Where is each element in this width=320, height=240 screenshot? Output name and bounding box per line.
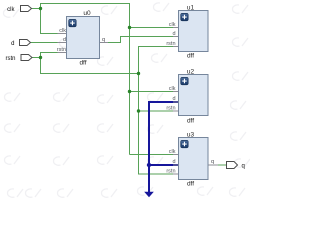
junction node rstn-u2 (137, 109, 140, 112)
junction node clk-u2 (128, 90, 131, 93)
svg-text:u3: u3 (187, 132, 195, 139)
svg-text:q: q (102, 37, 105, 43)
wire rstn port stub (32, 57, 41, 59)
svg-text:clk: clk (169, 22, 176, 28)
svg-text:rstn: rstn (166, 106, 175, 112)
watermark pattern (3, 3, 250, 197)
wire blue to u2.d (149, 102, 179, 193)
wire rstn down-run (41, 57, 139, 74)
wire clk riser to top (40, 4, 42, 10)
svg-text:dff: dff (187, 118, 194, 125)
u2 expand icon (181, 77, 189, 85)
svg-text:d: d (11, 41, 14, 47)
wire rstn branch up to u0 (41, 53, 67, 59)
u0 expand icon (69, 19, 77, 27)
wire clk elbow to u3 (130, 154, 179, 156)
junction node rstn-mid (137, 72, 140, 75)
svg-text:dff: dff (187, 53, 194, 60)
wire clk port stub (32, 8, 41, 10)
svg-text:clk: clk (169, 149, 176, 155)
svg-text:dff: dff (79, 60, 86, 67)
wire d port to u0 (31, 42, 67, 44)
svg-text:d: d (63, 37, 66, 43)
wire q0 net u0.q to u1.d (100, 37, 179, 43)
svg-text:rstn: rstn (166, 169, 175, 175)
u2 pin stubs (173, 92, 179, 112)
svg-text:d: d (172, 159, 175, 165)
svg-text:u1: u1 (187, 5, 195, 12)
u2 body (179, 75, 209, 116)
wire blue branch to u3.d (149, 164, 179, 166)
blue net end arrow (144, 192, 154, 197)
junction node rstn-port (39, 56, 42, 59)
svg-text:clk: clk (7, 7, 15, 13)
wire clk branch to u1 (130, 27, 179, 29)
wire clk top run (40, 3, 130, 5)
wire rstn riser to u1 (139, 47, 179, 75)
svg-text:rstn: rstn (5, 56, 15, 62)
highlighted net d2 (blue) (149, 102, 179, 193)
svg-text:rstn: rstn (166, 41, 175, 47)
wire rstn trunk down (139, 73, 179, 174)
u1 body (179, 11, 209, 52)
u3 expand icon (181, 140, 189, 148)
wire clk branch to u2 (130, 91, 179, 93)
u3 body (179, 138, 209, 180)
u1 expand icon (181, 13, 189, 20)
svg-text:u2: u2 (187, 69, 195, 76)
svg-text:q: q (211, 159, 214, 165)
svg-text:clk: clk (169, 86, 176, 92)
svg-text:dff: dff (187, 181, 194, 188)
wire clk vertical trunk (129, 3, 131, 155)
wire rstn branch to u2 (139, 110, 179, 112)
u0 body (67, 17, 100, 59)
svg-text:q: q (242, 164, 245, 170)
wire q3 net u3.q to port (208, 164, 227, 166)
junction node blue u3.d (147, 163, 151, 167)
svg-text:d: d (172, 31, 175, 37)
svg-text:clk: clk (59, 28, 66, 34)
svg-text:d: d (172, 96, 175, 102)
junction node clk-port (39, 7, 42, 10)
svg-text:u0: u0 (83, 10, 91, 17)
junction node clk-u1 (128, 26, 131, 29)
u1 pin stubs (173, 28, 179, 47)
wire clk branch to u0 (41, 8, 67, 34)
u0 pin stubs (58, 34, 109, 53)
svg-text:rstn: rstn (57, 47, 66, 53)
u3 pin stubs (173, 155, 218, 175)
